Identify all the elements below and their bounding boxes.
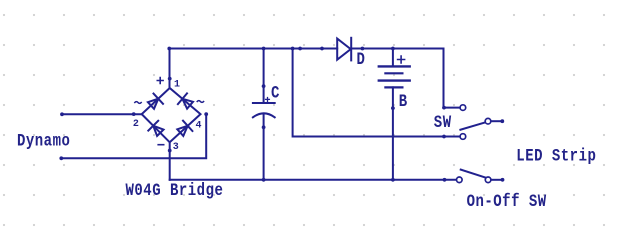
svg-text:3: 3 xyxy=(173,142,179,153)
svg-text:B: B xyxy=(399,92,408,112)
svg-text:Dynamo: Dynamo xyxy=(17,131,70,151)
svg-text:4: 4 xyxy=(196,120,202,131)
svg-text:LED Strip: LED Strip xyxy=(516,146,596,166)
svg-text:On-Off SW: On-Off SW xyxy=(467,192,547,212)
svg-text:C: C xyxy=(271,83,280,103)
svg-text:1: 1 xyxy=(174,80,180,91)
svg-text:2: 2 xyxy=(133,119,139,130)
svg-text:W04G Bridge: W04G Bridge xyxy=(126,181,224,201)
svg-text:D: D xyxy=(357,50,366,70)
svg-text:SW: SW xyxy=(434,113,452,133)
